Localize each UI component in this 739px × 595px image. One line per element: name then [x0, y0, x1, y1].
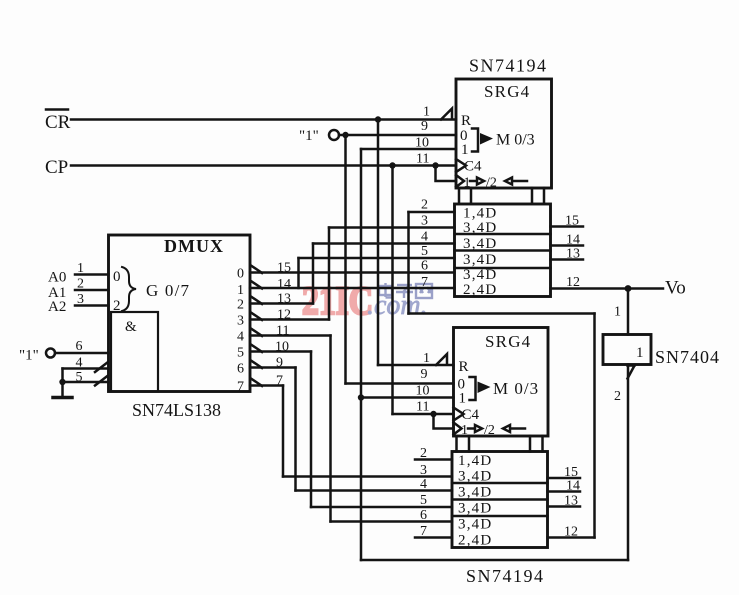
junction CP / lower C4 riser — [389, 162, 395, 168]
svg-text:2: 2 — [421, 198, 428, 213]
svg-text:12: 12 — [277, 308, 291, 323]
svg-text:A2: A2 — [48, 299, 66, 315]
wire U2 Q0 pin15 stub — [548, 477, 581, 480]
svg-text:10: 10 — [275, 340, 289, 355]
svg-text:3,4D: 3,4D — [463, 267, 497, 283]
svg-text:12: 12 — [566, 275, 580, 290]
wire lower serial branch — [434, 414, 454, 429]
svg-text:7: 7 — [420, 524, 427, 539]
wire U1 pin4 D input — [313, 242, 455, 245]
U0 output wedge 7 — [251, 379, 262, 387]
U2 D block box — [452, 452, 548, 548]
wire bottom feedback from SN7404 output — [361, 559, 628, 562]
svg-text:3: 3 — [421, 214, 428, 229]
U2 C4 clock triangle — [454, 408, 464, 421]
U0 output wedge 2 — [251, 297, 262, 305]
junction CR / lower R riser — [375, 116, 381, 122]
svg-text:SN7404: SN7404 — [655, 347, 720, 367]
svg-text:15: 15 — [565, 214, 579, 229]
ground — [53, 396, 72, 400]
wire dmux out0 to U1 pin6 — [250, 271, 455, 274]
svg-text:M 0/3: M 0/3 — [496, 132, 535, 149]
svg-text:1: 1 — [423, 105, 430, 120]
U2 D block divider 2 — [452, 498, 548, 501]
svg-text:Vo: Vo — [665, 278, 686, 299]
U1 serial input triangle — [456, 175, 464, 187]
wire U1 Q2 pin13 stub — [551, 258, 584, 261]
svg-text:0: 0 — [113, 269, 121, 285]
wire riser out1 to U1 pin5 — [297, 258, 300, 288]
U1 mode bracket — [472, 129, 478, 152]
svg-text:3: 3 — [237, 314, 244, 329]
U1 mode arrow — [480, 133, 493, 145]
wire SN7404 input drop — [627, 289, 630, 335]
wire U2 pin2 serial stub — [415, 458, 452, 461]
U0 output wedge 1 — [251, 281, 262, 289]
svg-text:7: 7 — [237, 380, 244, 395]
U1 D block box — [455, 204, 551, 297]
wire U2 Q1 pin14 stub — [548, 490, 581, 493]
svg-text:3,4D: 3,4D — [458, 501, 492, 517]
wire lower mode0 pin 9 — [346, 382, 454, 385]
svg-text:1: 1 — [614, 305, 621, 320]
U2 mode bracket — [470, 377, 476, 400]
svg-text:R: R — [461, 113, 471, 129]
svg-text:6: 6 — [237, 362, 244, 377]
junction Vo / SN7404 input — [625, 285, 632, 292]
svg-text:0: 0 — [237, 267, 244, 282]
wire top serial branch — [436, 166, 457, 182]
U2 serial row arrows — [468, 425, 525, 432]
svg-text:14: 14 — [566, 479, 580, 494]
svg-text:1: 1 — [461, 142, 469, 158]
wire riser out6 to U2 pin4 — [294, 368, 297, 491]
svg-text:3,4D: 3,4D — [463, 252, 497, 268]
svg-text:13: 13 — [277, 292, 291, 307]
wire enable pin4 — [63, 367, 109, 370]
wire riser out4 to U2 pin6 — [329, 336, 332, 522]
wire pins 4-5 tie — [61, 369, 64, 398]
junction lower C4 / serial branch — [430, 411, 436, 417]
svg-text:13: 13 — [564, 494, 578, 509]
svg-text:6: 6 — [420, 508, 427, 523]
svg-text:5: 5 — [421, 244, 428, 259]
shift register U2 SN74194 lower box — [454, 328, 549, 437]
wire dmux out5 — [250, 350, 311, 353]
wire mode1 riser (SN7404 feedback) — [360, 149, 363, 560]
wire "1" to top mode0 pin 9 — [339, 134, 456, 137]
svg-text:G 0/7: G 0/7 — [146, 281, 190, 300]
wire riser out3 to U1 pin3 — [328, 228, 331, 320]
svg-text:SRG4: SRG4 — [484, 82, 530, 101]
svg-text:4: 4 — [76, 356, 83, 371]
junction CP / top serial branch — [432, 162, 438, 168]
wire feedback right riser — [593, 314, 596, 538]
svg-text:SRG4: SRG4 — [485, 332, 531, 351]
svg-text:5: 5 — [420, 493, 427, 508]
wire dmux out6 — [250, 366, 296, 369]
wire feedback riser to U1 pin2 — [407, 212, 410, 314]
svg-text:2: 2 — [614, 389, 621, 404]
svg-text:5: 5 — [237, 346, 244, 361]
svg-text:SN74LS138: SN74LS138 — [132, 400, 221, 420]
U1 R pin wedge — [441, 109, 452, 120]
svg-text:1: 1 — [636, 345, 644, 361]
U1 C4 clock triangle — [456, 159, 466, 172]
U0 output wedge 4 — [251, 329, 262, 337]
svg-text:7: 7 — [276, 374, 283, 389]
svg-text:9: 9 — [276, 356, 283, 371]
U0 output wedge 0 — [251, 266, 262, 274]
inverter U3 SN7404 box — [603, 335, 651, 365]
wire dmux out7 — [250, 384, 283, 387]
wire "1" riser down to lower mode0 — [344, 135, 347, 384]
svg-text:3,4D: 3,4D — [458, 517, 492, 533]
wire U2 pin7 serial stub — [415, 536, 452, 539]
svg-text:.com.: .com. — [367, 290, 428, 321]
svg-text:10: 10 — [415, 136, 429, 151]
watermark wang glyph — [416, 284, 432, 298]
svg-text:3,4D: 3,4D — [463, 220, 497, 236]
wire riser out2 to U1 pin4 — [312, 244, 315, 304]
wire CP to top C4 pin — [71, 164, 456, 167]
svg-text:3,4D: 3,4D — [458, 485, 492, 501]
wire CR riser down to lower R — [377, 120, 380, 366]
U1 D block divider 2 — [455, 249, 551, 252]
wire U1 pin5 D input — [299, 257, 455, 260]
U0 output wedge 6 — [251, 361, 262, 369]
svg-text:1: 1 — [237, 283, 244, 298]
wire U2 Q3 pin12 feedback — [548, 536, 595, 539]
svg-text:12: 12 — [564, 525, 578, 540]
node "1" enable circle — [46, 349, 55, 358]
wire dmux out2 — [250, 302, 313, 305]
wire A2 input — [75, 304, 109, 307]
junction pin5 / ground — [59, 379, 65, 385]
wire feedback horizontal — [409, 312, 595, 315]
wire U2 pin4 D input — [296, 489, 453, 492]
wire CR to top R pin — [71, 118, 456, 121]
svg-text:/2: /2 — [484, 423, 495, 438]
wire enable pin6 — [55, 352, 109, 355]
U0 output wedge 5 — [251, 345, 262, 353]
svg-text:6: 6 — [76, 339, 83, 354]
svg-text:SN74194: SN74194 — [469, 56, 548, 76]
node "1" pull-up circle — [329, 130, 339, 140]
svg-text:6: 6 — [421, 259, 428, 274]
svg-text:7: 7 — [421, 275, 428, 290]
demultiplexer U0 SN74LS138 box — [109, 235, 251, 392]
svg-text:2,4D: 2,4D — [463, 282, 497, 298]
junction "1" riser — [342, 132, 348, 138]
wire CP riser down to lower C4 — [391, 166, 394, 415]
U1 box legs — [459, 188, 544, 204]
svg-text:SN74194: SN74194 — [466, 566, 545, 586]
watermark zi glyph — [396, 285, 413, 298]
svg-text:2: 2 — [113, 298, 121, 314]
U1 serial row arrows — [470, 178, 527, 185]
svg-text:M 0/3: M 0/3 — [493, 379, 539, 398]
wire U1 pin3 D input — [329, 226, 455, 229]
svg-text:3,4D: 3,4D — [463, 236, 497, 252]
svg-text:5: 5 — [76, 370, 83, 385]
svg-text:15: 15 — [277, 261, 291, 276]
svg-text:2: 2 — [420, 446, 427, 461]
svg-text:2: 2 — [77, 277, 84, 292]
svg-text:3: 3 — [420, 463, 427, 478]
wire U1 Q1 pin14 stub — [551, 244, 584, 247]
svg-text:4: 4 — [421, 230, 428, 245]
svg-text:DMUX: DMUX — [164, 236, 224, 256]
wire U2 Q2 pin13 stub — [548, 505, 581, 508]
wire U1 pin2 serial in — [409, 211, 455, 214]
svg-text:CP: CP — [45, 157, 68, 178]
watermark dian glyph — [379, 283, 393, 298]
U2 box legs — [457, 436, 543, 452]
wire enable pin5 — [63, 381, 109, 384]
wire dmux out3 — [250, 318, 329, 321]
wire U1 Q3 pin12 to Vo — [551, 287, 664, 290]
wire riser out7 to U2 pin3 — [282, 386, 285, 477]
svg-text:1: 1 — [464, 176, 471, 191]
svg-text:13: 13 — [566, 247, 580, 262]
svg-text:4: 4 — [420, 477, 427, 492]
U0 select brace — [122, 267, 136, 311]
U1 D block divider 1 — [455, 233, 551, 236]
U0 AND sub-box — [111, 312, 158, 392]
svg-text:CR: CR — [45, 112, 71, 133]
wire U2 pin3 D input — [283, 475, 452, 478]
wire U2 pin6 D input — [331, 520, 453, 523]
svg-text:1: 1 — [459, 391, 467, 407]
svg-text:3: 3 — [77, 292, 84, 307]
U0 pin5 wedge — [95, 376, 108, 386]
U2 mode arrow — [478, 382, 491, 394]
svg-text:9: 9 — [421, 367, 428, 382]
svg-text:&: & — [125, 319, 137, 335]
svg-text:"1": "1" — [19, 348, 39, 364]
svg-text:11: 11 — [276, 324, 289, 339]
svg-text:14: 14 — [277, 277, 291, 292]
shift register U1 SN74194 top box — [456, 79, 552, 188]
svg-text:C4: C4 — [462, 407, 480, 423]
svg-text:"1": "1" — [299, 128, 319, 144]
svg-text:11: 11 — [416, 152, 429, 167]
wire lower mode1 pin 10 — [361, 396, 454, 399]
wire U2 pin5 D input — [311, 506, 452, 509]
U2 D block divider 3 — [452, 515, 548, 518]
svg-text:1: 1 — [461, 423, 468, 438]
wire top mode1 pin 10 — [361, 148, 456, 151]
svg-text:2,4D: 2,4D — [458, 533, 492, 549]
svg-text:A0: A0 — [48, 270, 66, 286]
U3 output polarity wedge — [628, 366, 635, 379]
wire U1 Q0 pin15 stub — [551, 225, 584, 228]
wire A0 input — [75, 273, 109, 276]
wire SN7404 output down — [627, 365, 630, 561]
svg-text:1,4D: 1,4D — [458, 453, 492, 469]
wire dmux out1 to U1 pin7 — [250, 287, 455, 290]
svg-text:R: R — [459, 359, 469, 375]
U0 output wedge 3 — [251, 313, 262, 321]
svg-text:4: 4 — [237, 330, 244, 345]
svg-text:9: 9 — [421, 119, 428, 134]
svg-text:/2: /2 — [486, 176, 497, 191]
svg-text:1: 1 — [77, 261, 84, 276]
wire A1 input — [75, 289, 109, 292]
junction mode1 riser / lower pin 10 — [358, 394, 364, 400]
svg-text:14: 14 — [566, 233, 580, 248]
wire riser out5 to U2 pin5 — [310, 352, 313, 508]
U1 D block divider 3 — [455, 267, 551, 270]
U2 D block divider 1 — [452, 482, 548, 485]
svg-text:3,4D: 3,4D — [458, 469, 492, 485]
svg-text:1: 1 — [423, 351, 430, 366]
svg-text:2: 2 — [237, 298, 244, 313]
U0 pin4 wedge — [95, 362, 108, 372]
svg-text:10: 10 — [416, 384, 430, 399]
U2 serial input triangle — [454, 423, 462, 435]
node CR overline — [46, 108, 68, 111]
svg-text:11: 11 — [416, 400, 429, 415]
svg-text:C4: C4 — [464, 159, 482, 175]
U2 R pin wedge — [436, 354, 447, 365]
wire lower C4 pin — [393, 413, 454, 416]
wire lower R pin — [378, 364, 454, 367]
wire dmux out4 — [250, 334, 331, 337]
